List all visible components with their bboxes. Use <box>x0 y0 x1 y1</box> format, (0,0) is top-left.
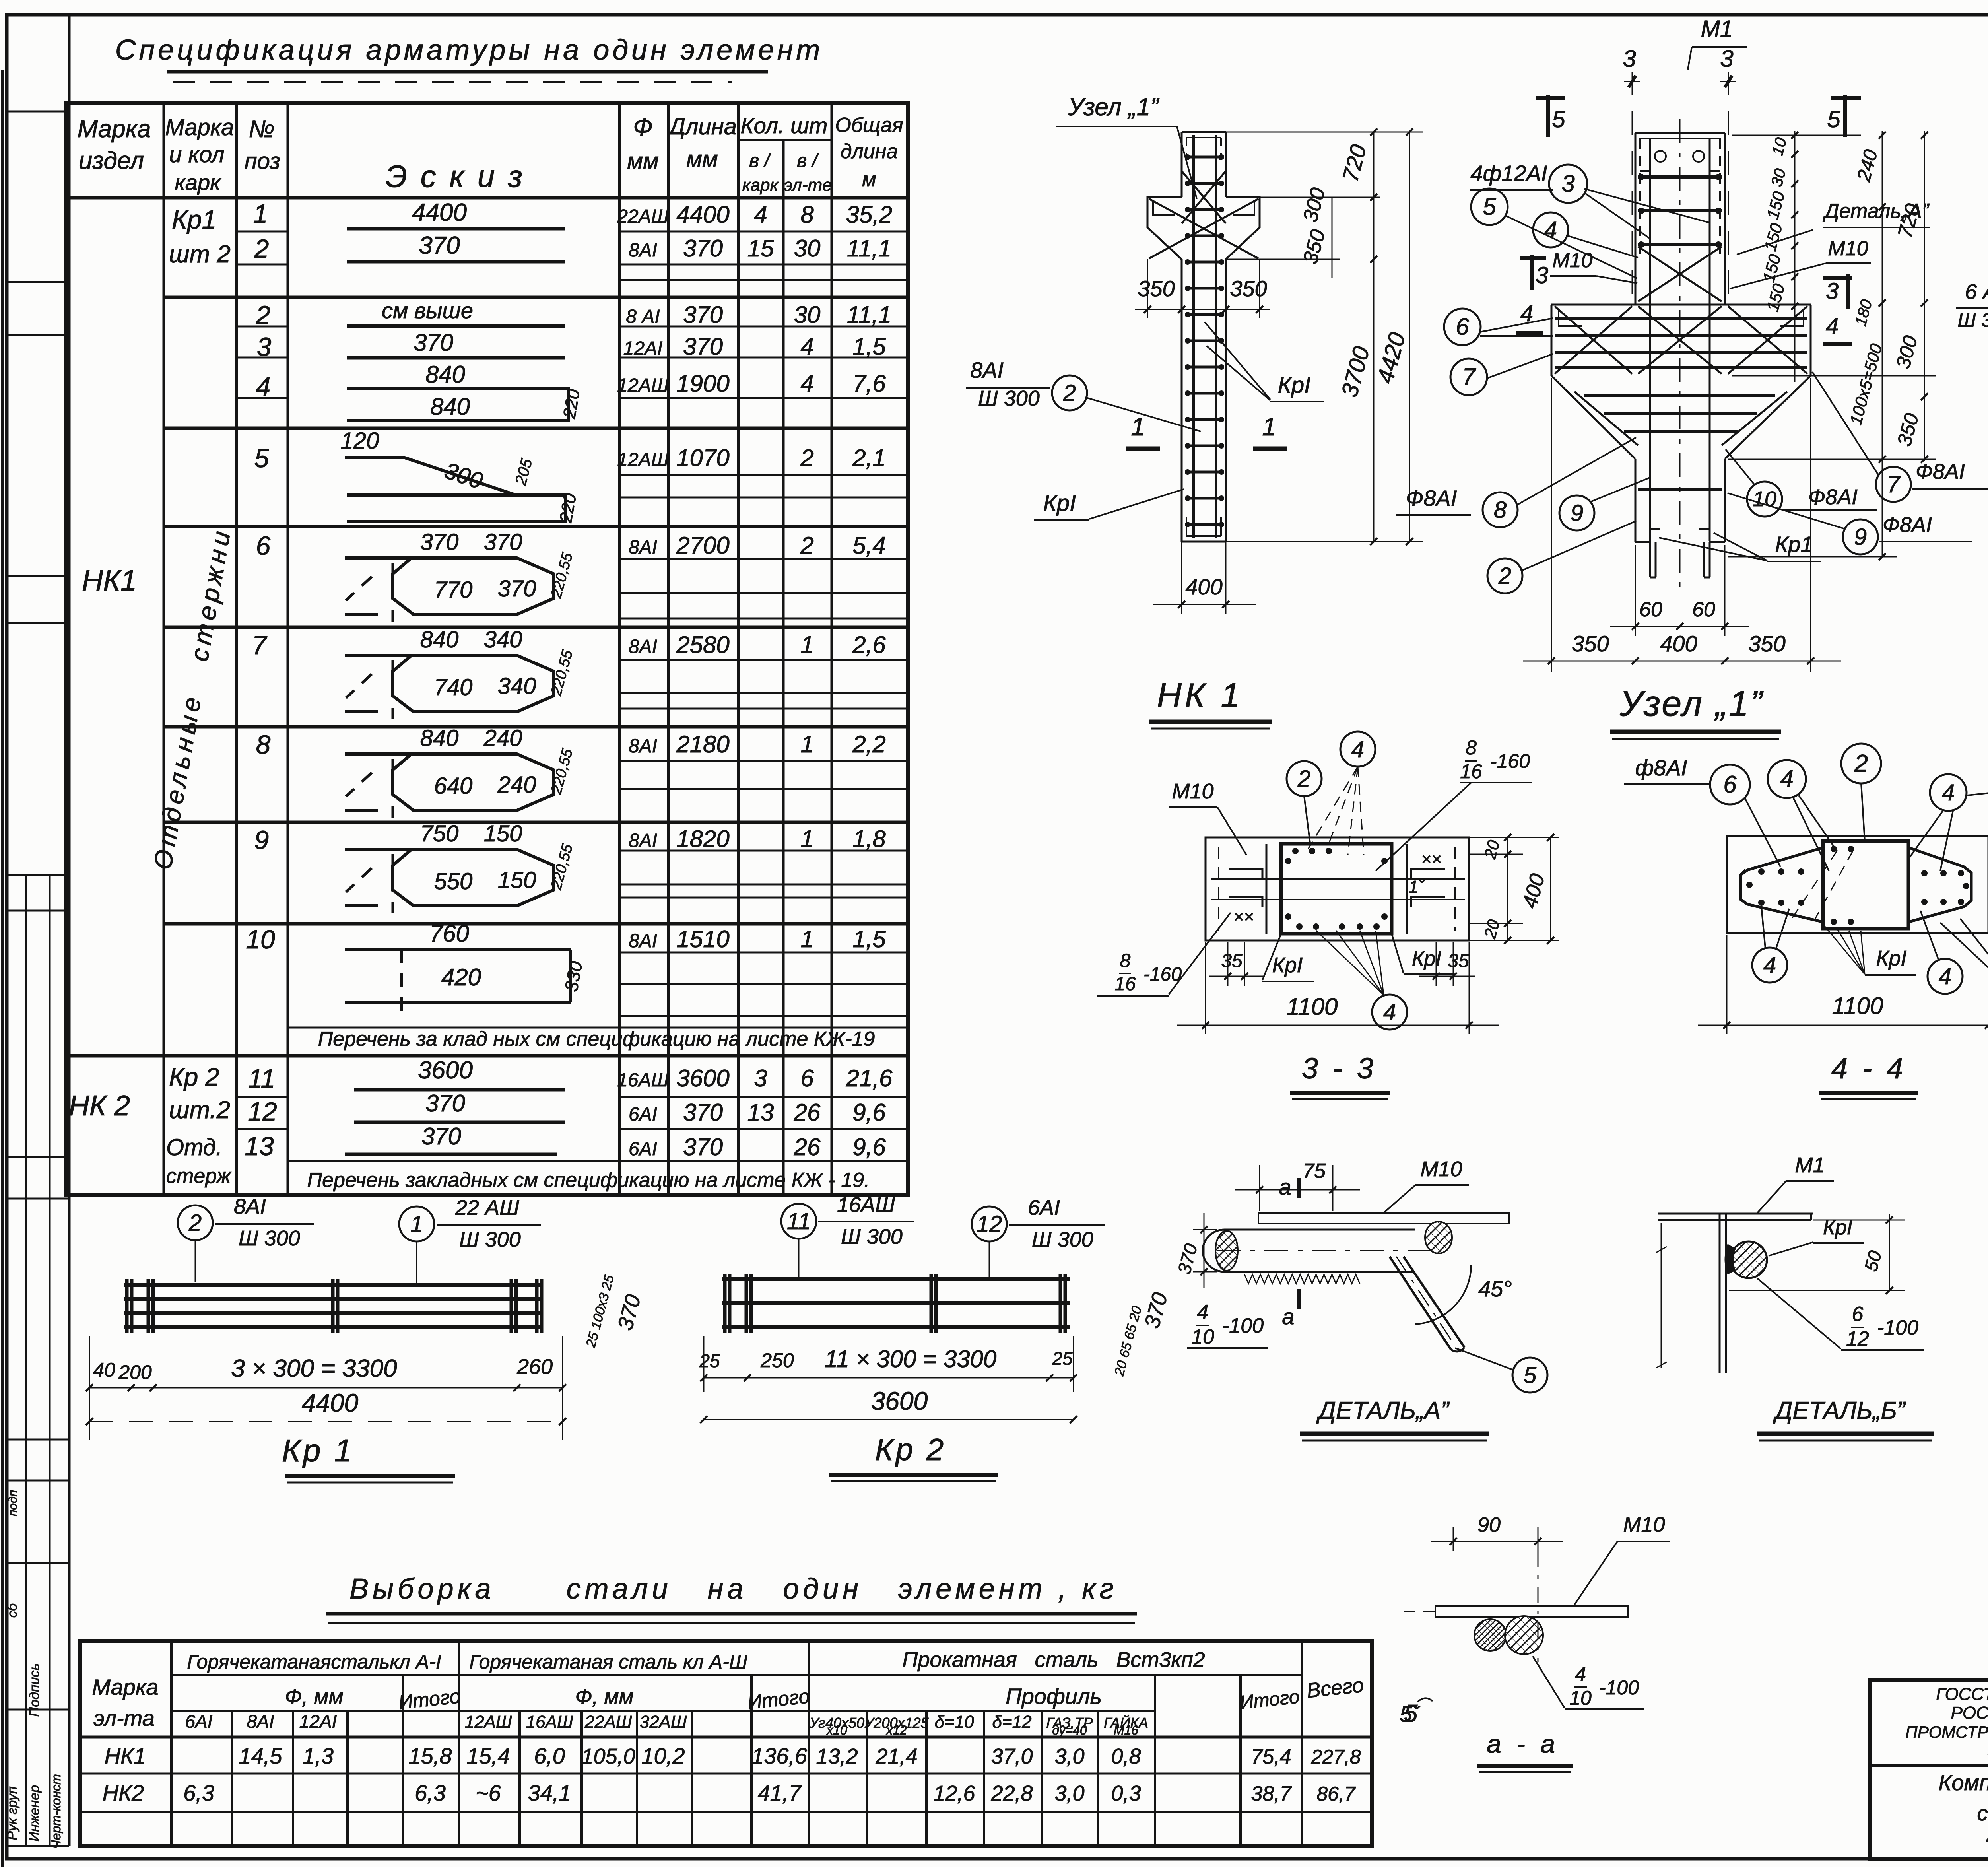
svg-text:РОСТОВСКИЙ: РОСТОВСКИЙ <box>1951 1702 1988 1723</box>
svg-text:а - а: а - а <box>1487 1729 1559 1758</box>
svg-text:0,3: 0,3 <box>1111 1782 1141 1805</box>
svg-text:120: 120 <box>341 428 379 454</box>
svg-text:60: 60 <box>1639 598 1662 621</box>
svg-text:8 АІ: 8 АІ <box>626 306 660 327</box>
svg-text:13,2: 13,2 <box>816 1745 858 1768</box>
svg-text:4: 4 <box>1939 964 1951 989</box>
svg-text:1,8: 1,8 <box>852 826 886 852</box>
svg-text:22,8: 22,8 <box>990 1782 1033 1805</box>
svg-text:3: 3 <box>754 1065 767 1092</box>
svg-text:см выше: см выше <box>382 298 473 323</box>
svg-text:5ˇ: 5ˇ <box>1400 1702 1421 1727</box>
svg-text:Профиль: Профиль <box>1006 1684 1102 1709</box>
svg-text:Кр1: Кр1 <box>172 205 216 234</box>
svg-text:Э с к и з: Э с к и з <box>386 159 525 194</box>
svg-text:740: 740 <box>434 674 473 700</box>
svg-text:1: 1 <box>800 926 813 952</box>
svg-text:подп: подп <box>6 1490 19 1516</box>
svg-text:-160: -160 <box>1143 964 1182 985</box>
svg-text:6АІ: 6АІ <box>1028 1196 1060 1220</box>
svg-text:3: 3 <box>1536 262 1548 288</box>
svg-text:Марка: Марка <box>92 1675 158 1700</box>
svg-text:ГОССТРОЙ СССР: ГОССТРОЙ СССР <box>1936 1684 1988 1704</box>
svg-text:НК 1: НК 1 <box>1157 676 1243 715</box>
svg-text:7: 7 <box>1887 472 1901 497</box>
svg-text:8АІ: 8АІ <box>247 1711 274 1732</box>
svg-text:21,6: 21,6 <box>846 1065 893 1092</box>
svg-text:х12: х12 <box>885 1723 907 1737</box>
svg-text:9: 9 <box>1571 500 1583 526</box>
svg-text:Ш 300: Ш 300 <box>239 1226 300 1250</box>
svg-text:2: 2 <box>1297 766 1310 792</box>
svg-text:Подпись: Подпись <box>27 1663 42 1717</box>
svg-text:Кр 2: Кр 2 <box>875 1432 946 1467</box>
svg-text:Марка: Марка <box>77 115 151 143</box>
svg-text:350: 350 <box>1572 631 1609 656</box>
svg-text:издел: издел <box>79 147 144 175</box>
svg-text:5: 5 <box>1827 106 1840 132</box>
svg-text:6,0: 6,0 <box>534 1743 565 1768</box>
svg-text:1100: 1100 <box>1286 993 1338 1020</box>
svg-text:6,3: 6,3 <box>415 1780 446 1805</box>
svg-text:М10: М10 <box>1172 779 1213 803</box>
svg-text:Ф8АІ: Ф8АІ <box>1916 460 1965 484</box>
svg-text:420: 420 <box>441 964 481 991</box>
svg-text:Спецификация арматуры на од: Спецификация арматуры на один элемент <box>115 34 823 66</box>
svg-text:КрІ: КрІ <box>1043 490 1076 516</box>
svg-text:2,2: 2,2 <box>852 731 885 758</box>
svg-text:38,7: 38,7 <box>1251 1782 1292 1805</box>
svg-text:340: 340 <box>498 673 536 699</box>
svg-text:4ф12АІ: 4ф12АІ <box>1470 161 1547 186</box>
svg-text:1ˇ: 1ˇ <box>1408 877 1425 897</box>
svg-text:8АІ: 8АІ <box>629 537 657 558</box>
svg-text:1: 1 <box>253 199 268 228</box>
svg-text:30: 30 <box>794 301 821 328</box>
svg-text:3 × 300 = 3300: 3 × 300 = 3300 <box>231 1355 397 1382</box>
svg-text:1: 1 <box>410 1211 423 1237</box>
svg-text:4: 4 <box>1197 1301 1209 1324</box>
svg-text:25: 25 <box>699 1350 720 1371</box>
svg-text:7: 7 <box>1462 363 1476 390</box>
svg-text:40: 40 <box>93 1359 115 1381</box>
svg-text:8АІ: 8АІ <box>629 636 657 657</box>
svg-text:КрІ: КрІ <box>1278 372 1311 398</box>
svg-text:6АІ: 6АІ <box>629 1104 657 1125</box>
svg-text:16АШ: 16АШ <box>837 1193 895 1217</box>
svg-text:Ш 300: Ш 300 <box>1032 1228 1093 1251</box>
svg-text:770: 770 <box>434 577 473 603</box>
svg-text:КрІ: КрІ <box>1412 947 1441 970</box>
svg-text:а: а <box>1282 1304 1294 1329</box>
svg-text:Ф, мм: Ф, мм <box>575 1685 634 1709</box>
svg-text:8АІ: 8АІ <box>234 1195 266 1218</box>
svg-text:10: 10 <box>1569 1687 1592 1709</box>
svg-text:350: 350 <box>1138 276 1175 301</box>
svg-text:НК1: НК1 <box>82 564 137 597</box>
svg-text:11,1: 11,1 <box>847 301 891 328</box>
svg-text:0,8: 0,8 <box>1111 1745 1141 1768</box>
svg-text:12АШ: 12АШ <box>617 375 669 396</box>
svg-text:30: 30 <box>794 235 821 262</box>
svg-text:ф8АІ: ф8АІ <box>1635 755 1687 780</box>
svg-text:8АІ: 8АІ <box>629 830 657 851</box>
svg-text:Перечень за клад ных см специф: Перечень за клад ных см спецификацию на … <box>318 1028 875 1051</box>
svg-text:1,5: 1,5 <box>852 333 886 360</box>
svg-text:3: 3 <box>257 332 272 361</box>
svg-text:мм: мм <box>627 148 659 174</box>
svg-text:3: 3 <box>1623 45 1636 72</box>
svg-text:8АІ: 8АІ <box>629 931 657 952</box>
svg-text:4400: 4400 <box>676 201 729 228</box>
svg-text:8: 8 <box>256 730 271 759</box>
svg-text:5: 5 <box>1552 106 1565 132</box>
svg-text:227,8: 227,8 <box>1310 1746 1361 1768</box>
svg-text:370: 370 <box>683 301 723 328</box>
svg-text:840: 840 <box>430 393 470 420</box>
svg-text:длина: длина <box>841 140 898 163</box>
svg-text:сб: сб <box>5 1603 20 1618</box>
svg-text:4: 4 <box>800 370 813 397</box>
svg-text:350: 350 <box>1748 631 1785 656</box>
svg-text:2: 2 <box>254 234 269 263</box>
svg-text:75,4: 75,4 <box>1251 1745 1291 1768</box>
svg-text:Ш 300: Ш 300 <box>1957 309 1988 331</box>
svg-text:ду=40: ду=40 <box>1052 1723 1087 1737</box>
svg-text:840: 840 <box>420 725 459 751</box>
svg-text:4400: 4400 <box>412 199 467 226</box>
svg-text:11: 11 <box>787 1208 811 1234</box>
svg-text:1510: 1510 <box>676 926 729 952</box>
svg-text:370: 370 <box>683 235 723 262</box>
svg-text:НК2: НК2 <box>103 1780 144 1805</box>
svg-text:75: 75 <box>1303 1160 1326 1183</box>
svg-text:М1: М1 <box>1795 1153 1825 1177</box>
svg-text:12: 12 <box>1846 1327 1869 1350</box>
svg-text:4: 4 <box>1383 999 1396 1025</box>
svg-text:37,0: 37,0 <box>991 1745 1033 1768</box>
svg-text:350: 350 <box>1230 276 1267 301</box>
svg-text:ДЕТАЛЬ„Б”: ДЕТАЛЬ„Б” <box>1773 1397 1906 1424</box>
svg-text:4 - 4: 4 - 4 <box>1831 1052 1906 1085</box>
svg-text:4: 4 <box>1763 952 1776 978</box>
svg-text:16АШ: 16АШ <box>526 1712 573 1732</box>
svg-text:34,1: 34,1 <box>528 1780 571 1805</box>
svg-text:эл-та: эл-та <box>93 1706 155 1731</box>
svg-text:Ф8АІ: Ф8АІ <box>1406 486 1457 511</box>
svg-text:7: 7 <box>252 630 268 660</box>
svg-text:стерж: стерж <box>166 1165 232 1188</box>
svg-text:370: 370 <box>420 529 459 555</box>
svg-text:М10: М10 <box>1420 1157 1462 1181</box>
svg-text:1: 1 <box>1131 412 1145 441</box>
svg-text:8: 8 <box>1494 497 1507 523</box>
svg-text:1: 1 <box>800 631 813 658</box>
svg-text:1: 1 <box>800 826 813 852</box>
svg-text:Инженер: Инженер <box>27 1785 42 1842</box>
svg-text:в /: в / <box>797 150 819 171</box>
svg-text:16: 16 <box>1114 973 1136 995</box>
svg-text:~6: ~6 <box>476 1780 501 1805</box>
svg-text:150: 150 <box>484 821 522 847</box>
svg-text:12: 12 <box>248 1097 277 1126</box>
svg-text:15,8: 15,8 <box>409 1743 452 1768</box>
svg-text:9: 9 <box>254 825 269 855</box>
svg-text:4К−500А: 4К−500А <box>1986 1825 1988 1850</box>
svg-text:4: 4 <box>1351 736 1364 762</box>
svg-text:КрІ: КрІ <box>1272 953 1303 977</box>
svg-text:136,6: 136,6 <box>751 1743 808 1768</box>
svg-text:4: 4 <box>800 333 813 360</box>
svg-text:340: 340 <box>484 627 522 653</box>
svg-text:Общая: Общая <box>835 114 903 137</box>
svg-text:8: 8 <box>1466 736 1477 759</box>
svg-text:3 - 3: 3 - 3 <box>1302 1052 1376 1085</box>
svg-text:2,6: 2,6 <box>852 631 886 658</box>
svg-text:1070: 1070 <box>676 445 729 471</box>
svg-text:15,4: 15,4 <box>467 1743 510 1768</box>
svg-text:6: 6 <box>800 1065 814 1092</box>
svg-text:М10: М10 <box>1623 1513 1665 1537</box>
svg-text:5: 5 <box>1524 1362 1537 1388</box>
svg-text:δ=10: δ=10 <box>934 1712 974 1732</box>
svg-text:150: 150 <box>498 867 536 893</box>
svg-text:δ=12: δ=12 <box>992 1712 1031 1732</box>
svg-text:и кол: и кол <box>169 142 224 167</box>
svg-text:8: 8 <box>1120 950 1131 971</box>
svg-text:М10: М10 <box>1828 237 1868 260</box>
svg-text:41,7: 41,7 <box>758 1780 802 1805</box>
svg-text:4: 4 <box>1544 217 1557 243</box>
svg-text:Марка: Марка <box>165 115 234 140</box>
svg-text:7,6: 7,6 <box>852 370 886 397</box>
svg-text:45°: 45° <box>1478 1276 1512 1301</box>
svg-text:750: 750 <box>420 821 459 847</box>
svg-text:а: а <box>1279 1174 1291 1199</box>
svg-text:Длина: Длина <box>667 114 737 140</box>
svg-text:840: 840 <box>425 361 465 388</box>
svg-text:4: 4 <box>1575 1663 1586 1685</box>
svg-text:Кол. шт: Кол. шт <box>741 113 828 138</box>
svg-text:12АШ: 12АШ <box>617 449 669 470</box>
svg-text:8: 8 <box>800 201 814 228</box>
svg-text:370: 370 <box>419 232 460 259</box>
svg-text:1,3: 1,3 <box>303 1743 334 1768</box>
svg-text:370: 370 <box>498 576 536 602</box>
svg-text:9,6: 9,6 <box>852 1134 886 1160</box>
svg-text:Ф, мм: Ф, мм <box>285 1685 344 1709</box>
svg-text:16: 16 <box>1460 760 1482 783</box>
svg-text:1820: 1820 <box>676 826 729 852</box>
svg-text:12,6: 12,6 <box>933 1782 975 1805</box>
svg-text:11: 11 <box>248 1064 276 1093</box>
svg-text:6: 6 <box>1456 313 1469 340</box>
svg-text:КрІ: КрІ <box>1876 946 1907 970</box>
svg-text:карк: карк <box>742 175 779 195</box>
svg-text:ПРОМСТРОЙНИИПРОЕКТ: ПРОМСТРОЙНИИПРОЕКТ <box>1905 1722 1988 1741</box>
svg-text:3600: 3600 <box>676 1065 729 1092</box>
svg-text:4: 4 <box>754 201 767 228</box>
svg-text:22 АШ: 22 АШ <box>455 1196 519 1220</box>
svg-text:3600: 3600 <box>418 1057 473 1084</box>
svg-text:Рук груп: Рук груп <box>5 1786 20 1840</box>
svg-text:НК 2: НК 2 <box>69 1090 130 1122</box>
svg-text:Ш 300: Ш 300 <box>459 1228 521 1251</box>
svg-text:22АШ: 22АШ <box>617 206 669 227</box>
svg-text:Узел „1”: Узел „1” <box>1619 684 1764 724</box>
svg-text:4: 4 <box>1780 765 1793 792</box>
svg-text:240: 240 <box>483 725 522 751</box>
svg-text:370: 370 <box>683 1099 723 1126</box>
svg-text:х10: х10 <box>826 1723 847 1737</box>
svg-text:5: 5 <box>1483 193 1496 220</box>
svg-text:4: 4 <box>1942 780 1955 806</box>
svg-text:6АІ: 6АІ <box>185 1711 212 1732</box>
svg-text:Кр 1: Кр 1 <box>282 1433 354 1468</box>
svg-text:2: 2 <box>800 445 813 471</box>
svg-text:станция: станция <box>1977 1801 1988 1825</box>
svg-text:Ф8АІ: Ф8АІ <box>1883 513 1932 537</box>
svg-text:22АШ: 22АШ <box>584 1712 632 1732</box>
svg-text:8АІ: 8АІ <box>970 357 1004 383</box>
svg-text:-100: -100 <box>1222 1314 1264 1337</box>
svg-text:25: 25 <box>1052 1348 1073 1369</box>
svg-text:6 АІ: 6 АІ <box>1965 280 1988 304</box>
svg-text:м: м <box>862 168 876 191</box>
svg-text:3: 3 <box>1720 45 1733 72</box>
svg-text:260: 260 <box>516 1355 553 1379</box>
svg-text:5: 5 <box>254 443 269 473</box>
svg-text:Ш 300: Ш 300 <box>978 387 1040 410</box>
svg-text:-160: -160 <box>1490 750 1530 772</box>
svg-text:550: 550 <box>434 868 473 894</box>
svg-text:Ф8АІ: Ф8АІ <box>1808 485 1858 509</box>
svg-text:32АШ: 32АШ <box>640 1712 687 1732</box>
svg-text:3: 3 <box>1561 170 1574 197</box>
svg-text:Узел „1”: Узел „1” <box>1068 93 1159 121</box>
svg-text:10: 10 <box>1191 1325 1214 1348</box>
svg-text:××: ×× <box>1233 907 1254 927</box>
svg-text:5,4: 5,4 <box>852 532 885 559</box>
svg-text:8АІ: 8АІ <box>629 240 657 261</box>
svg-text:9,6: 9,6 <box>852 1099 886 1126</box>
svg-text:35: 35 <box>1221 950 1242 971</box>
svg-text:2: 2 <box>1063 380 1076 406</box>
svg-text:-100: -100 <box>1877 1316 1918 1339</box>
svg-text:370: 370 <box>425 1090 465 1117</box>
svg-text:14,5: 14,5 <box>239 1743 283 1768</box>
svg-text:6,3: 6,3 <box>183 1780 214 1805</box>
svg-text:3,0: 3,0 <box>1054 1782 1084 1805</box>
svg-text:мм: мм <box>686 146 718 172</box>
svg-text:400: 400 <box>1660 631 1697 656</box>
svg-text:1: 1 <box>800 731 813 758</box>
svg-text:М1: М1 <box>1701 16 1733 42</box>
svg-text:2,1: 2,1 <box>852 445 885 471</box>
svg-text:Компрессорная: Компрессорная <box>1938 1770 1988 1795</box>
svg-text:13: 13 <box>245 1131 274 1161</box>
svg-text:9: 9 <box>1854 524 1867 550</box>
svg-text:Черт-конст: Черт-конст <box>49 1774 63 1849</box>
svg-text:3,0: 3,0 <box>1054 1745 1084 1768</box>
svg-text:Перечень закладных см специфик: Перечень закладных см спецификацию на ли… <box>307 1169 870 1192</box>
svg-text:-100: -100 <box>1599 1677 1639 1699</box>
svg-text:2: 2 <box>1854 750 1868 777</box>
svg-text:8АІ: 8АІ <box>629 736 657 757</box>
svg-text:6: 6 <box>1852 1303 1864 1326</box>
svg-text:№: № <box>249 116 275 142</box>
svg-text:35: 35 <box>1448 950 1469 971</box>
svg-text:2: 2 <box>800 532 813 559</box>
svg-text:шт 2: шт 2 <box>169 241 231 268</box>
svg-text:640: 640 <box>434 773 473 799</box>
svg-text:400: 400 <box>1185 574 1222 599</box>
svg-text:4: 4 <box>1826 313 1839 339</box>
svg-text:Горячекатаная сталь кл А-Ш: Горячекатаная сталь кл А-Ш <box>469 1651 747 1673</box>
svg-text:1100: 1100 <box>1832 993 1883 1019</box>
svg-text:Ф: Ф <box>633 113 652 141</box>
svg-text:1: 1 <box>1262 412 1276 441</box>
svg-text:××: ×× <box>1421 849 1441 869</box>
svg-text:105,0: 105,0 <box>581 1745 635 1768</box>
svg-text:ДЕТАЛЬ„А”: ДЕТАЛЬ„А” <box>1316 1397 1450 1424</box>
svg-text:2: 2 <box>256 300 271 330</box>
svg-text:11 × 300 = 3300: 11 × 300 = 3300 <box>825 1346 997 1372</box>
svg-text:1,5: 1,5 <box>852 926 886 952</box>
svg-text:М16: М16 <box>1114 1723 1138 1737</box>
svg-text:Прокатная сталь Вст3кп2: Прокатная сталь Вст3кп2 <box>902 1648 1205 1672</box>
svg-text:2: 2 <box>188 1210 202 1236</box>
svg-text:370: 370 <box>683 1134 723 1160</box>
svg-text:Кр1: Кр1 <box>1775 532 1813 557</box>
svg-text:Горячекатанаясталькл А-I: Горячекатанаясталькл А-I <box>187 1651 441 1673</box>
svg-text:в /: в / <box>749 150 771 171</box>
svg-text:760: 760 <box>429 920 469 947</box>
svg-text:15: 15 <box>747 235 774 262</box>
svg-text:12: 12 <box>977 1211 1002 1237</box>
svg-text:21,4: 21,4 <box>875 1745 917 1768</box>
svg-text:12АІ: 12АІ <box>623 338 663 359</box>
svg-text:86,7: 86,7 <box>1316 1783 1356 1805</box>
svg-text:6: 6 <box>256 531 271 560</box>
svg-text:1900: 1900 <box>676 370 729 397</box>
svg-text:4400: 4400 <box>302 1389 359 1417</box>
svg-text:2180: 2180 <box>676 731 729 758</box>
svg-text:3600: 3600 <box>871 1387 928 1415</box>
svg-text:4: 4 <box>256 372 271 401</box>
svg-text:370: 370 <box>484 529 522 555</box>
svg-text:Кр 2: Кр 2 <box>169 1063 219 1091</box>
svg-text:60: 60 <box>1692 598 1715 621</box>
svg-text:шт.2: шт.2 <box>169 1096 230 1124</box>
svg-text:35,2: 35,2 <box>846 201 893 228</box>
svg-text:370: 370 <box>683 333 723 360</box>
svg-text:370: 370 <box>414 329 453 356</box>
svg-text:карк: карк <box>175 170 221 195</box>
svg-text:16АШ: 16АШ <box>617 1070 669 1091</box>
svg-text:240: 240 <box>497 772 536 798</box>
svg-text:3: 3 <box>1826 278 1839 304</box>
svg-text:10,2: 10,2 <box>642 1743 685 1768</box>
svg-text:840: 840 <box>420 627 459 653</box>
svg-text:250: 250 <box>760 1349 794 1372</box>
svg-text:Отд.: Отд. <box>166 1135 222 1160</box>
svg-text:6: 6 <box>1723 771 1737 798</box>
svg-text:90: 90 <box>1477 1513 1501 1537</box>
svg-text:13: 13 <box>747 1099 774 1126</box>
svg-text:26: 26 <box>794 1099 821 1126</box>
svg-text:2580: 2580 <box>676 631 729 658</box>
